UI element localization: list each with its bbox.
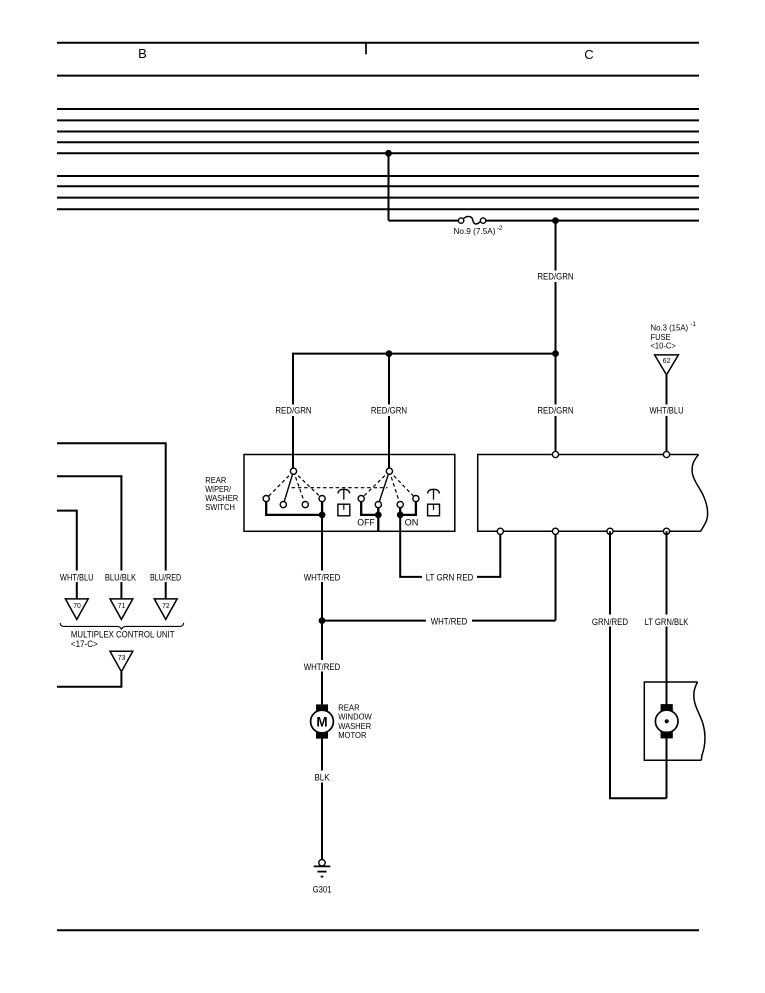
- connector 70: [65, 599, 88, 620]
- wire GRN/RED: [610, 531, 667, 798]
- label RED/GRN middle: [369, 405, 410, 417]
- label WHT/RED on link: [426, 614, 472, 627]
- motor body: [311, 710, 334, 733]
- wire switch feed horizontal: [293, 353, 556, 355]
- svg-text:73: 73: [118, 653, 126, 662]
- label No.3 (15A)-1 FUSE 10-C: [651, 321, 697, 350]
- wire WHT/RED horizontal link: [322, 620, 556, 622]
- washer unit box (torn right edge): [644, 682, 705, 760]
- wire WHT/BLU branch: [57, 511, 77, 599]
- svg-text:SWITCH: SWITCH: [205, 502, 235, 512]
- junction on fused row: [553, 218, 559, 224]
- bus wire 7: [57, 185, 699, 187]
- label RED/GRN upper: [535, 271, 576, 283]
- svg-text:C: C: [584, 47, 593, 62]
- svg-text:62: 62: [663, 356, 671, 365]
- left switch throw pins: [263, 496, 269, 502]
- bus wire 4: [57, 141, 699, 143]
- left switch contact arm (solid): [283, 471, 293, 504]
- label WHT/BLU right: [647, 405, 687, 417]
- wire WHT/BLU vertical: [666, 375, 668, 455]
- bus wire 6: [57, 175, 699, 177]
- right switch OFF bus: [361, 501, 378, 531]
- bus wire 2: [57, 119, 699, 121]
- junction ON: [397, 512, 403, 518]
- junction on bus wire 5: [386, 150, 392, 156]
- junction right common feed: [386, 351, 392, 357]
- washer motor center dot: [665, 719, 669, 723]
- bus wire 5: [57, 152, 699, 154]
- svg-text:<17-C>: <17-C>: [71, 638, 98, 649]
- connector 71: [110, 599, 133, 620]
- svg-text:OFF: OFF: [357, 518, 375, 528]
- junction WHT/RED: [319, 618, 325, 624]
- label GRN/RED: [591, 615, 630, 627]
- wire RED/GRN main vertical: [555, 221, 557, 455]
- svg-text:BLU/BLK: BLU/BLK: [105, 572, 136, 582]
- svg-text:B: B: [138, 46, 147, 61]
- svg-text:-1: -1: [691, 321, 697, 328]
- wire fuse feed vertical: [388, 153, 390, 220]
- svg-text:RED/GRN: RED/GRN: [371, 405, 407, 415]
- fuse No.9 (7.5A): [458, 217, 485, 224]
- svg-text:RED/GRN: RED/GRN: [537, 405, 573, 415]
- wire to left switch common: [292, 353, 294, 469]
- control unit box (torn right edge): [478, 455, 708, 532]
- label WHT/RED lower: [303, 660, 342, 672]
- svg-text:<10-C>: <10-C>: [651, 341, 677, 350]
- svg-text:GRN/RED: GRN/RED: [592, 617, 629, 627]
- wire fused row left segment: [389, 220, 460, 222]
- label WHT/BLU left: [57, 571, 97, 583]
- motor circuit: brush top: [316, 704, 328, 711]
- label WHT/RED upper: [303, 571, 342, 583]
- svg-text:G301: G301: [313, 885, 332, 895]
- svg-text:LT GRN RED: LT GRN RED: [426, 572, 474, 582]
- svg-text:WHT/BLU: WHT/BLU: [60, 572, 94, 582]
- connector 72: [154, 599, 177, 620]
- fuse label No.9 (7.5A)-2: [454, 225, 504, 236]
- label REAR WIPER/WASHER SWITCH: [205, 475, 238, 512]
- wire fused row right segment: [485, 220, 699, 222]
- left switch common pin: [290, 468, 296, 474]
- underbrace: [60, 623, 183, 629]
- wire LT GRN RED: [400, 515, 500, 577]
- svg-text:BLK: BLK: [314, 773, 329, 783]
- control unit bottom pins: [497, 528, 503, 534]
- bus wire 1: [57, 108, 699, 110]
- svg-text:WHT/RED: WHT/RED: [304, 572, 341, 582]
- label RED/GRN lower: [535, 405, 576, 417]
- motor brush bottom: [316, 732, 328, 739]
- label BLU/BLK: [102, 571, 142, 583]
- label BLK: [308, 771, 336, 783]
- bus wire 8: [57, 197, 699, 199]
- left switch dashed throws: [266, 471, 322, 504]
- bus wire 9: [57, 208, 699, 210]
- wire from connector 73: [57, 672, 121, 687]
- wire to right switch common: [388, 354, 390, 469]
- label LT GRN/BLK: [642, 615, 692, 627]
- svg-text:LT GRN/BLK: LT GRN/BLK: [645, 617, 689, 627]
- washer motor body: [655, 710, 678, 733]
- svg-text:72: 72: [162, 601, 170, 610]
- header line 2: [57, 75, 699, 77]
- svg-text:WHT/BLU: WHT/BLU: [649, 405, 683, 415]
- wire BLU/RED branch: [57, 443, 166, 599]
- svg-text:WHT/RED: WHT/RED: [304, 662, 341, 672]
- label BLU/RED: [146, 571, 187, 583]
- junction switch feed: [553, 351, 559, 357]
- label REAR WINDOW WASHER MOTOR: [338, 702, 372, 740]
- connector 62: [655, 355, 679, 375]
- bus wire 3: [57, 131, 699, 133]
- right switch ON bus: [400, 501, 416, 515]
- right switch common pin: [386, 468, 392, 474]
- svg-text:M: M: [316, 714, 327, 729]
- momentary return symbol right: [428, 489, 440, 516]
- mechanical link dashed: [292, 487, 388, 489]
- right switch throw pins: [358, 496, 364, 502]
- svg-text:ON: ON: [405, 518, 419, 528]
- washer motor brush bottom: [661, 731, 673, 738]
- label RED/GRN left: [273, 405, 314, 417]
- junction OFF: [375, 512, 381, 518]
- left switch output bus: [266, 501, 322, 515]
- right switch contact arm (solid): [378, 471, 389, 504]
- column divider tick: [365, 42, 367, 54]
- svg-text:71: 71: [118, 601, 126, 610]
- control unit top pins: [552, 451, 558, 457]
- connector 73: [110, 651, 133, 672]
- svg-text:70: 70: [73, 601, 81, 610]
- svg-text:No.9 (7.5A): No.9 (7.5A): [454, 227, 496, 236]
- svg-text:MOTOR: MOTOR: [338, 730, 366, 740]
- ground G301: [313, 860, 332, 895]
- washer motor brush top: [661, 704, 673, 711]
- wire BLK: [321, 739, 323, 860]
- svg-text:BLU/RED: BLU/RED: [150, 572, 182, 582]
- switch box: [244, 455, 455, 532]
- wire link riser: [555, 531, 557, 620]
- svg-text:WHT/RED: WHT/RED: [431, 616, 468, 626]
- momentary return symbol left: [338, 489, 350, 516]
- wire BLU/BLK branch: [57, 476, 121, 599]
- wire LT GRN/BLK: [666, 531, 668, 798]
- bottom border line: [57, 929, 699, 931]
- junction left switch output: [319, 512, 325, 518]
- top border line: [57, 42, 699, 44]
- wire WHT/RED vertical to motor: [321, 515, 323, 705]
- svg-text:RED/GRN: RED/GRN: [275, 405, 311, 415]
- svg-text:No.3 (15A): No.3 (15A): [651, 324, 689, 333]
- label LT GRN RED: [422, 571, 477, 584]
- svg-text:-2: -2: [497, 225, 503, 232]
- right switch dashed throws: [361, 471, 416, 504]
- svg-text:RED/GRN: RED/GRN: [537, 272, 573, 282]
